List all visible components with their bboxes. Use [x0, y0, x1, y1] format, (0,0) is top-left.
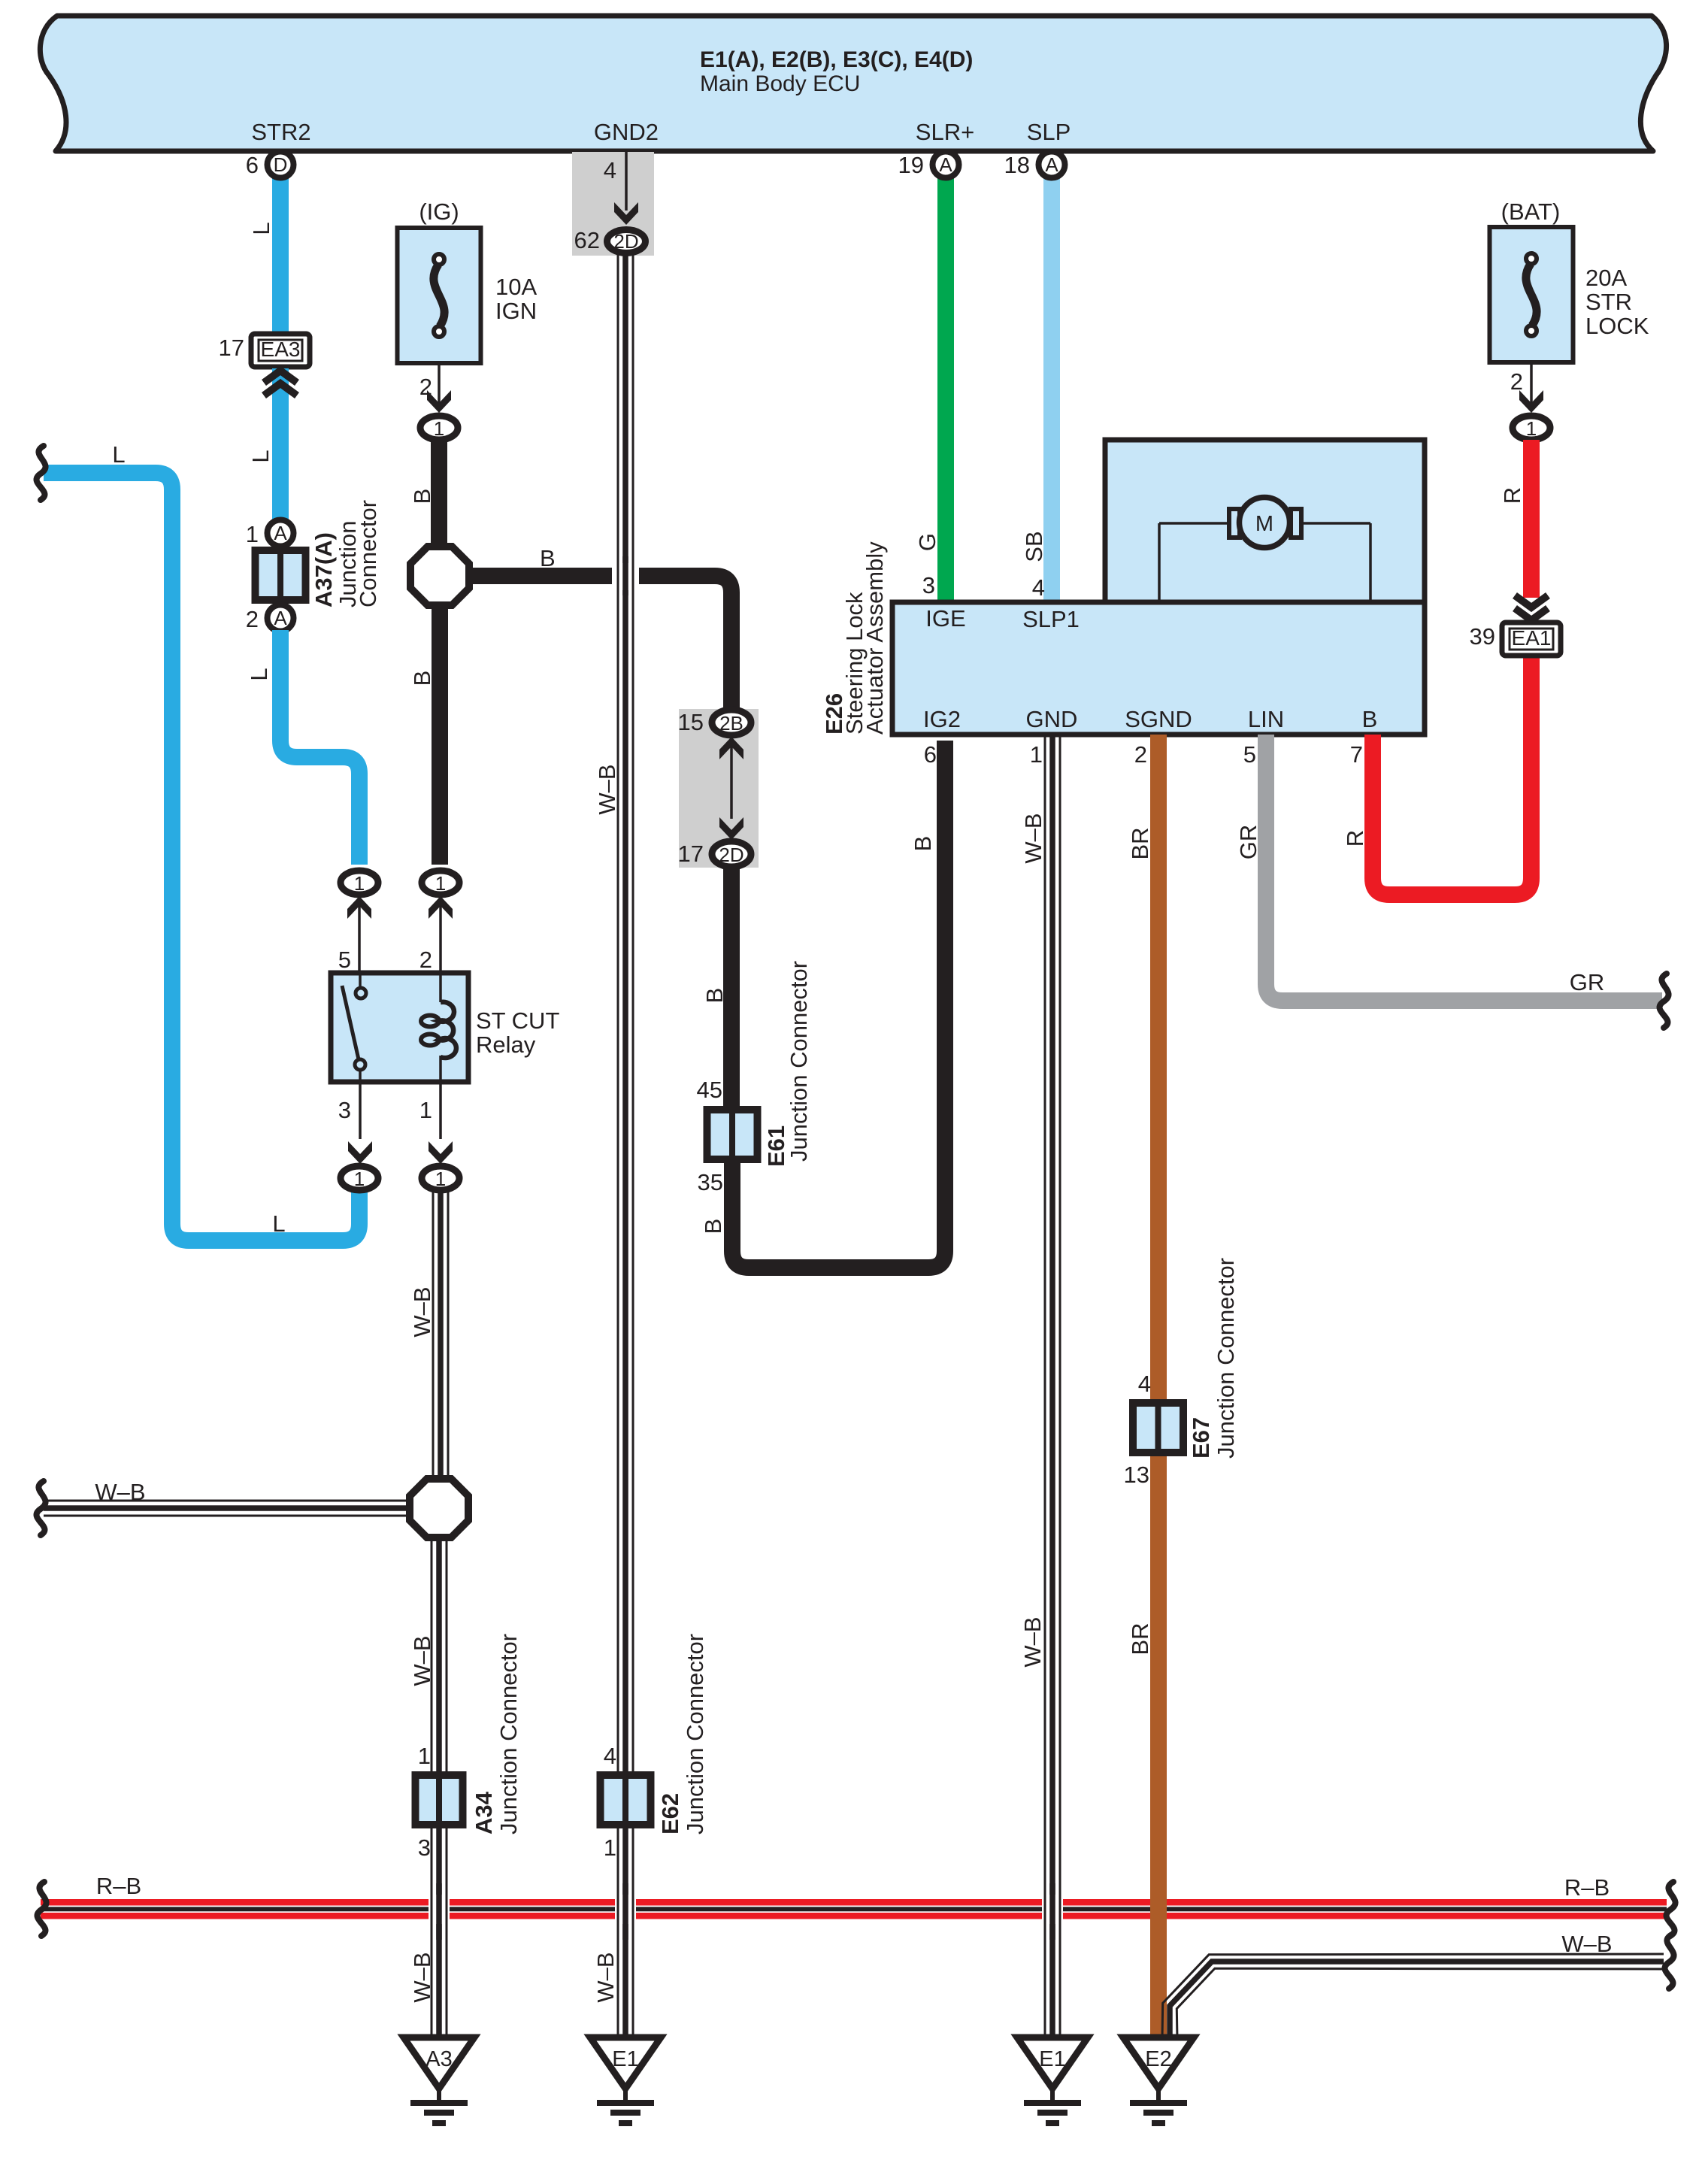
svg-text:3: 3 [338, 1097, 351, 1123]
svg-text:2: 2 [419, 947, 432, 973]
chevrons above EA1 [1515, 595, 1548, 607]
svg-text:45: 45 [697, 1077, 722, 1103]
svg-text:M: M [1255, 512, 1273, 536]
relay coil [439, 973, 442, 1002]
wire W-B page break to ground E2 [1177, 1968, 1664, 2039]
svg-text:E62: E62 [657, 1793, 683, 1834]
svg-text:1: 1 [418, 1743, 431, 1769]
junction connector A34 [416, 1775, 463, 1825]
svg-text:1: 1 [1030, 741, 1043, 768]
svg-text:D: D [274, 153, 288, 176]
wire L from A37 down and jog to relay pin5 connector [280, 630, 359, 865]
svg-text:STR: STR [1585, 289, 1632, 315]
wire W-B from page break to octagon [44, 1500, 410, 1502]
wire L from EA3 to A37 [272, 368, 289, 523]
junction connector E61 [707, 1110, 758, 1159]
svg-text:15: 15 [678, 709, 704, 735]
svg-text:GND: GND [1026, 706, 1078, 732]
svg-text:W–B: W–B [409, 1635, 435, 1686]
svg-text:R: R [1499, 487, 1525, 504]
svg-text:E1(A), E2(B), E3(C), E4(D): E1(A), E2(B), E3(C), E4(D) [700, 47, 973, 72]
svg-text:3: 3 [922, 572, 935, 598]
svg-text:1: 1 [1526, 417, 1537, 440]
wire BR SGND to E67 [1150, 735, 1167, 1401]
arrow into 2D [614, 202, 638, 225]
svg-text:L: L [246, 668, 272, 680]
connector 62 (2D) [607, 230, 646, 253]
wire L from page break to relay pin3 connector [44, 473, 359, 1241]
wire GR LIN to page break [1266, 735, 1662, 1001]
svg-text:EA3: EA3 [261, 338, 301, 361]
fuse 10A IGN [398, 228, 481, 363]
connector shade 2B/2D [679, 709, 759, 868]
svg-text:4: 4 [604, 1743, 616, 1769]
arrow up into pin2 connector [429, 896, 453, 919]
connector 15 (2B) [712, 710, 751, 735]
arrow up into 2B [719, 737, 743, 759]
wire L from STR2 pin to EA3 [272, 173, 289, 337]
svg-text:7: 7 [1350, 741, 1363, 768]
svg-text:E2: E2 [1145, 2047, 1171, 2071]
svg-text:Actuator Assembly: Actuator Assembly [862, 541, 888, 735]
fuse 20A STR LOCK [1490, 227, 1573, 362]
svg-text:E67: E67 [1188, 1417, 1214, 1459]
svg-text:B: B [910, 836, 936, 852]
chevrons below EA3 [264, 371, 297, 383]
ground E1 right [1017, 2037, 1088, 2089]
connector shade GND2 [572, 152, 654, 256]
arrow into connector [427, 390, 451, 413]
svg-text:A: A [939, 153, 952, 176]
svg-text:R: R [1342, 830, 1368, 847]
svg-text:LOCK: LOCK [1585, 313, 1649, 339]
junction connector E62 [601, 1775, 651, 1825]
svg-text:1: 1 [435, 1168, 446, 1190]
motor M [1229, 509, 1240, 538]
svg-text:1: 1 [434, 417, 444, 440]
svg-text:SLP1: SLP1 [1022, 606, 1080, 632]
svg-text:6: 6 [246, 152, 259, 178]
svg-text:E1: E1 [612, 2047, 638, 2071]
svg-text:W–B: W–B [594, 764, 620, 814]
wire BR over bus [1150, 1891, 1167, 1929]
svg-text:1: 1 [419, 1097, 432, 1123]
wire W-B E62 to ground E1 [632, 1828, 634, 2039]
svg-text:B: B [409, 671, 435, 686]
ground E1 left [590, 2037, 661, 2089]
junction octagon W-B [410, 1479, 468, 1537]
motor internal wiring [1159, 522, 1231, 525]
ground E2 [1123, 2037, 1194, 2089]
connector 1 below STR LOCK fuse [1513, 416, 1550, 440]
svg-text:W–B: W–B [409, 1286, 435, 1337]
wire from fuse to connector 1 [438, 363, 441, 410]
svg-text:4: 4 [1138, 1371, 1151, 1397]
svg-text:BR: BR [1127, 1622, 1153, 1655]
svg-text:E1: E1 [1039, 2047, 1065, 2071]
junction octagon [410, 547, 469, 605]
svg-text:20A: 20A [1585, 265, 1627, 291]
svg-text:3: 3 [418, 1834, 431, 1861]
svg-text:GR: GR [1570, 969, 1605, 995]
svg-text:2B: 2B [719, 712, 743, 735]
wire B 2D to E61 [723, 868, 740, 1107]
svg-text:6: 6 [924, 741, 937, 768]
svg-text:W–B: W–B [95, 1479, 145, 1505]
wire W-B A34 to ground A3 [446, 1828, 448, 2039]
svg-text:IG2: IG2 [923, 706, 961, 732]
arrow down into connector below pin1 [429, 1141, 453, 1164]
svg-text:W–B: W–B [1019, 1616, 1046, 1667]
svg-text:Junction Connector: Junction Connector [495, 1634, 522, 1834]
page break R-B right [1667, 1882, 1676, 1936]
svg-text:Main Body ECU: Main Body ECU [700, 71, 860, 96]
svg-text:17: 17 [219, 335, 244, 361]
svg-text:L: L [272, 1210, 285, 1237]
junction connector E67 [1133, 1403, 1183, 1453]
svg-text:G: G [914, 533, 940, 551]
svg-text:B: B [540, 545, 556, 571]
ECU block E26 Steering Lock Actuator Assembly [1105, 440, 1425, 602]
svg-text:A: A [1045, 153, 1058, 176]
page break GR wire [1660, 974, 1669, 1028]
svg-text:EA1: EA1 [1512, 626, 1552, 650]
svg-text:1: 1 [246, 521, 259, 547]
relay switch [359, 973, 362, 989]
svg-text:Junction Connector: Junction Connector [786, 961, 812, 1162]
svg-text:B: B [409, 489, 435, 504]
wire from STR LOCK fuse [1530, 362, 1533, 410]
svg-text:2D: 2D [719, 844, 743, 866]
svg-text:B: B [1362, 706, 1378, 732]
svg-text:(BAT): (BAT) [1501, 198, 1561, 225]
svg-text:1: 1 [435, 872, 446, 895]
svg-text:R–B: R–B [1564, 1874, 1610, 1901]
svg-text:L: L [112, 441, 125, 468]
svg-text:Relay: Relay [476, 1032, 536, 1058]
pin 18 (A) SLP [1039, 152, 1065, 178]
svg-text:18: 18 [1004, 152, 1030, 178]
svg-text:SB: SB [1021, 531, 1047, 562]
svg-text:1: 1 [354, 1168, 365, 1190]
svg-text:W–B: W–B [1020, 813, 1046, 863]
bus R-B [41, 1899, 1667, 1906]
svg-text:62: 62 [574, 227, 600, 253]
wire GND2 pin to 2D connector [625, 152, 628, 211]
svg-text:W–B: W–B [592, 1952, 619, 2002]
svg-text:W–B: W–B [1561, 1931, 1612, 1957]
svg-text:W–B: W–B [409, 1952, 435, 2002]
svg-text:1: 1 [354, 872, 365, 895]
connector EA1 pin 39 [1502, 623, 1561, 656]
svg-text:Junction Connector: Junction Connector [682, 1634, 708, 1834]
svg-text:Connector: Connector [355, 500, 381, 607]
svg-text:10A: 10A [495, 274, 537, 300]
arrow into connector [1519, 390, 1543, 413]
svg-text:A34: A34 [471, 1791, 497, 1834]
wire B E61 to E26 pin6 IG2 [732, 741, 945, 1268]
white gaps at W-B crossings of bus [429, 1895, 450, 1924]
svg-text:17: 17 [678, 841, 704, 867]
svg-text:13: 13 [1124, 1462, 1149, 1488]
connector 1 below relay pin3 [341, 1166, 378, 1190]
redraw W-B verticals over bus [446, 1883, 448, 1940]
ECU block E1(A),E2(B),E3(C),E4(D) Main Body ECU [40, 16, 1666, 151]
wire W-B relay connector to octagon [447, 1192, 450, 1479]
connector 1 below relay pin1 [422, 1166, 459, 1190]
svg-text:19: 19 [898, 152, 924, 178]
svg-text:5: 5 [338, 947, 351, 973]
svg-text:SLR+: SLR+ [916, 119, 974, 145]
page break L wire [37, 446, 46, 500]
svg-text:5: 5 [1243, 741, 1256, 768]
svg-text:GR: GR [1235, 825, 1261, 860]
svg-text:SLP: SLP [1027, 119, 1071, 145]
svg-text:R–B: R–B [96, 1873, 141, 1899]
relay ST CUT [331, 973, 468, 1082]
connector EA3 pin 17 [251, 334, 310, 367]
page break W-B right [1665, 1934, 1674, 1989]
svg-text:39: 39 [1470, 623, 1495, 650]
wire W-B GND to ground E1 [1059, 735, 1061, 2039]
svg-text:A: A [274, 607, 287, 629]
svg-text:BR: BR [1127, 827, 1153, 859]
svg-text:2D: 2D [613, 230, 638, 253]
connector 17 (2D) [712, 841, 751, 867]
white gap at W-B crossing of B wire [612, 563, 639, 590]
svg-text:SGND: SGND [1125, 706, 1192, 732]
page break R-B left [38, 1882, 47, 1936]
arrow up into pin5 connector [347, 896, 371, 919]
svg-text:2: 2 [1510, 368, 1523, 395]
svg-text:(IG): (IG) [419, 198, 459, 225]
wire B fuse to octagon junction [431, 440, 447, 549]
svg-text:L: L [247, 450, 274, 462]
svg-text:4: 4 [604, 157, 616, 183]
connector 1 above relay pin2 [422, 871, 459, 895]
svg-text:IGN: IGN [495, 298, 537, 324]
svg-text:2: 2 [246, 606, 259, 632]
svg-text:B: B [700, 1219, 726, 1235]
svg-text:GND2: GND2 [594, 119, 659, 145]
svg-text:A37(A): A37(A) [310, 532, 337, 607]
wire SB SLP to SLP1 pin4 [1043, 173, 1060, 602]
wire W-B 2D to E62 [632, 255, 634, 1773]
svg-text:ST CUT: ST CUT [476, 1007, 559, 1034]
relay bottom pin wires [359, 1082, 362, 1139]
wire R fuse connector to EA1 [1523, 440, 1540, 598]
pin 19 (A) SLR+ [933, 152, 959, 178]
svg-text:STR2: STR2 [251, 119, 310, 145]
svg-text:Junction Connector: Junction Connector [1213, 1258, 1239, 1459]
connector 1 above relay pin5 [341, 871, 378, 895]
svg-text:IGE: IGE [925, 605, 965, 632]
ground A3 [404, 2037, 474, 2089]
junction connector A37(A) [268, 520, 294, 547]
wire B octagon down to relay pin2 connector [432, 605, 448, 865]
svg-text:2: 2 [1134, 741, 1147, 768]
arrow down into 2D [719, 817, 743, 840]
svg-text:4: 4 [1032, 574, 1045, 601]
svg-text:A: A [274, 522, 287, 544]
wire W-B octagon to A34 [446, 1537, 448, 1773]
wire BR E67 to ground E2 [1150, 1456, 1167, 2039]
svg-text:35: 35 [698, 1169, 723, 1195]
svg-text:L: L [248, 222, 274, 235]
arrow down into connector below pin3 [348, 1141, 372, 1164]
wire R from E26 pin7 B to EA1 [1373, 657, 1531, 895]
wire B octagon to 2B connector [469, 576, 731, 710]
svg-text:A3: A3 [425, 2047, 452, 2071]
wire G SLR+ to IGE pin3 [937, 173, 954, 602]
svg-text:1: 1 [604, 1834, 616, 1861]
svg-text:B: B [701, 988, 728, 1004]
svg-text:LIN: LIN [1248, 706, 1284, 732]
pin 6 (D) STR2 [268, 152, 294, 178]
connector 1 below IGN fuse [420, 416, 458, 440]
